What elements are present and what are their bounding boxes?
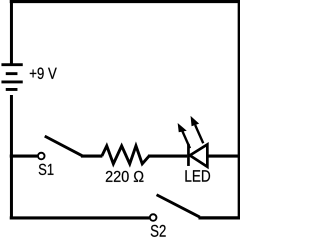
label: battery voltage "+9 V" bbox=[30, 68, 57, 79]
label: switch designator "S1" bbox=[39, 164, 54, 175]
battery B1: short plate (-) lower bbox=[6, 88, 18, 91]
LED D1: light emission arrow shaft (right) bbox=[195, 125, 203, 143]
switch S2: arm (open blade) bbox=[157, 195, 200, 217]
LED D1: triangle (anode, pointing left) bbox=[190, 144, 208, 166]
wire: switch S2 to bottom-right corner bbox=[198, 216, 241, 219]
switch S1: arm (open blade) bbox=[45, 136, 83, 156]
switch S2: open terminal circle bbox=[150, 214, 157, 221]
label: resistor value "220 Ω" bbox=[106, 171, 144, 182]
LED D1: light emission arrowhead (right) bbox=[191, 116, 200, 126]
switch S1: open terminal circle bbox=[38, 153, 45, 160]
battery B1: short plate (-) upper bbox=[6, 72, 18, 75]
LED D1: cathode bar bbox=[187, 144, 190, 166]
wire: top rail (battery + side, full width) bbox=[10, 0, 241, 3]
LED D1: light emission arrowhead (left) bbox=[178, 123, 187, 132]
wire: left rail lower (battery - plate down to bottom-left corner) bbox=[10, 95, 13, 220]
wire: middle row from left rail to switch S1 terminal bbox=[10, 154, 38, 157]
battery B1: long plate (+) upper bbox=[1, 63, 22, 66]
label: "LED" bbox=[185, 170, 210, 181]
wire: bottom rail from bottom-left corner to switch S2 terminal bbox=[10, 216, 150, 219]
wire: right rail (top-right corner down to bottom-right corner) bbox=[238, 0, 241, 219]
label: switch designator "S2" bbox=[151, 225, 166, 237]
wire: left rail upper (top-left corner down to battery + plate) bbox=[10, 0, 13, 64]
wire: LED anode to right rail bbox=[207, 154, 241, 157]
resistor R1: zigzag body bbox=[102, 146, 149, 164]
LED D1: light emission arrow shaft (left) bbox=[182, 131, 190, 148]
wire: switch S1 to resistor R1 bbox=[81, 154, 102, 157]
wire: resistor R1 to LED cathode bbox=[148, 154, 187, 157]
battery B1: long plate (+) lower bbox=[1, 80, 22, 83]
